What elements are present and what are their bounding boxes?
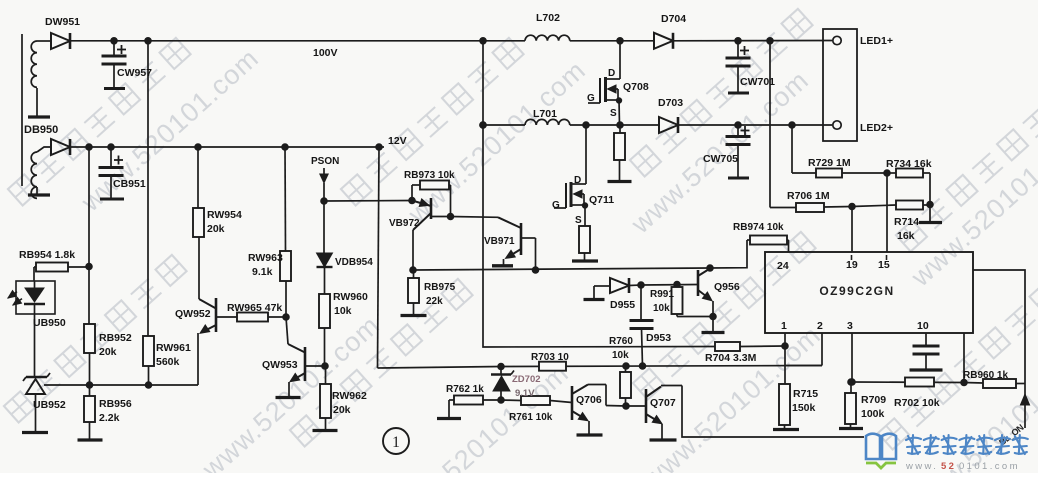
svg-text:RB973 10k: RB973 10k xyxy=(404,170,455,181)
svg-text:OZ99C2GN: OZ99C2GN xyxy=(819,284,894,298)
svg-text:RB956: RB956 xyxy=(99,398,132,410)
svg-text:RW960: RW960 xyxy=(333,291,368,303)
svg-text:www.: www. xyxy=(905,461,938,472)
svg-text:RB974 10k: RB974 10k xyxy=(733,222,784,233)
svg-text:22k: 22k xyxy=(426,296,443,307)
svg-text:ZD702: ZD702 xyxy=(512,374,541,385)
svg-text:RB952: RB952 xyxy=(99,332,132,344)
svg-text:D955: D955 xyxy=(610,299,635,311)
svg-text:1: 1 xyxy=(781,320,787,332)
svg-text:150k: 150k xyxy=(792,402,816,414)
svg-text:R714: R714 xyxy=(894,216,919,228)
svg-text:D704: D704 xyxy=(661,13,686,25)
svg-text:560k: 560k xyxy=(156,356,180,368)
svg-text:QW952: QW952 xyxy=(175,308,211,320)
svg-text:D: D xyxy=(608,68,615,79)
svg-text:12V: 12V xyxy=(388,135,407,147)
svg-text:QW953: QW953 xyxy=(262,359,298,371)
svg-text:UB952: UB952 xyxy=(33,399,66,411)
svg-text:3: 3 xyxy=(847,320,853,332)
svg-text:RW961: RW961 xyxy=(156,342,191,354)
svg-text:2.2k: 2.2k xyxy=(99,412,120,424)
svg-text:UB950: UB950 xyxy=(33,317,66,329)
svg-text:10: 10 xyxy=(917,320,929,332)
svg-text:R704 3.3M: R704 3.3M xyxy=(705,352,757,364)
svg-text:Q711: Q711 xyxy=(589,194,614,206)
svg-text:10k: 10k xyxy=(612,350,629,361)
svg-text:19: 19 xyxy=(846,259,858,271)
svg-text:52: 52 xyxy=(941,461,956,472)
svg-text:CW705: CW705 xyxy=(703,153,738,165)
svg-text:LED2+: LED2+ xyxy=(860,122,893,134)
svg-text:PSON: PSON xyxy=(311,156,339,167)
svg-text:D953: D953 xyxy=(646,332,671,344)
svg-text:R702 10k: R702 10k xyxy=(894,397,940,409)
svg-text:1: 1 xyxy=(392,434,400,451)
svg-text:R709: R709 xyxy=(861,394,886,406)
svg-text:CW957: CW957 xyxy=(117,67,152,79)
svg-text:S: S xyxy=(575,215,582,226)
svg-text:24: 24 xyxy=(777,260,789,272)
svg-text:R729 1M: R729 1M xyxy=(808,157,851,169)
svg-text:20k: 20k xyxy=(333,404,351,416)
svg-text:D: D xyxy=(574,175,581,186)
svg-text:2: 2 xyxy=(817,320,823,332)
svg-text:15: 15 xyxy=(878,259,890,271)
svg-text:R715: R715 xyxy=(793,388,818,400)
svg-text:100V: 100V xyxy=(313,47,338,59)
svg-text:VDB954: VDB954 xyxy=(335,257,373,268)
svg-text:RB960 1k: RB960 1k xyxy=(963,370,1008,381)
svg-text:RW965 47k: RW965 47k xyxy=(227,302,282,314)
svg-text:R706 1M: R706 1M xyxy=(787,190,830,202)
svg-text:R703 10: R703 10 xyxy=(531,352,569,363)
svg-text:L701: L701 xyxy=(533,108,557,120)
svg-text:Q956: Q956 xyxy=(714,281,740,293)
svg-text:S: S xyxy=(610,108,617,119)
svg-text:Q708: Q708 xyxy=(623,81,649,93)
svg-text:CB951: CB951 xyxy=(113,178,146,190)
svg-text:RW963: RW963 xyxy=(248,252,283,264)
svg-text:VB972: VB972 xyxy=(389,218,420,229)
svg-text:L702: L702 xyxy=(536,12,560,24)
svg-text:R762 1k: R762 1k xyxy=(446,384,484,395)
svg-text:LED1+: LED1+ xyxy=(860,35,893,47)
svg-text:RW962: RW962 xyxy=(332,390,367,402)
svg-text:Q707: Q707 xyxy=(650,397,676,409)
svg-text:100k: 100k xyxy=(861,408,885,420)
svg-text:0101.com: 0101.com xyxy=(959,461,1020,472)
svg-text:CW701: CW701 xyxy=(740,76,775,88)
svg-text:G: G xyxy=(587,93,595,104)
svg-text:R760: R760 xyxy=(609,336,633,347)
svg-text:RB954 1.8k: RB954 1.8k xyxy=(19,249,75,261)
svg-text:G: G xyxy=(552,200,560,211)
svg-text:D703: D703 xyxy=(658,97,683,109)
svg-text:9.1k: 9.1k xyxy=(252,266,273,278)
svg-text:16k: 16k xyxy=(897,230,915,242)
svg-text:RW954: RW954 xyxy=(207,209,242,221)
svg-text:9.1V: 9.1V xyxy=(515,388,535,399)
svg-text:20k: 20k xyxy=(99,346,117,358)
svg-text:10k: 10k xyxy=(653,303,670,314)
svg-text:DB950: DB950 xyxy=(24,124,58,136)
svg-text:VB971: VB971 xyxy=(484,236,515,247)
svg-text:Q706: Q706 xyxy=(576,394,602,406)
svg-text:10k: 10k xyxy=(334,305,352,317)
svg-text:R761 10k: R761 10k xyxy=(509,412,553,423)
svg-text:20k: 20k xyxy=(207,223,225,235)
svg-text:R991: R991 xyxy=(650,289,674,300)
svg-text:DW951: DW951 xyxy=(45,16,80,28)
svg-text:R734 16k: R734 16k xyxy=(886,158,932,170)
svg-text:RB975: RB975 xyxy=(424,282,456,293)
